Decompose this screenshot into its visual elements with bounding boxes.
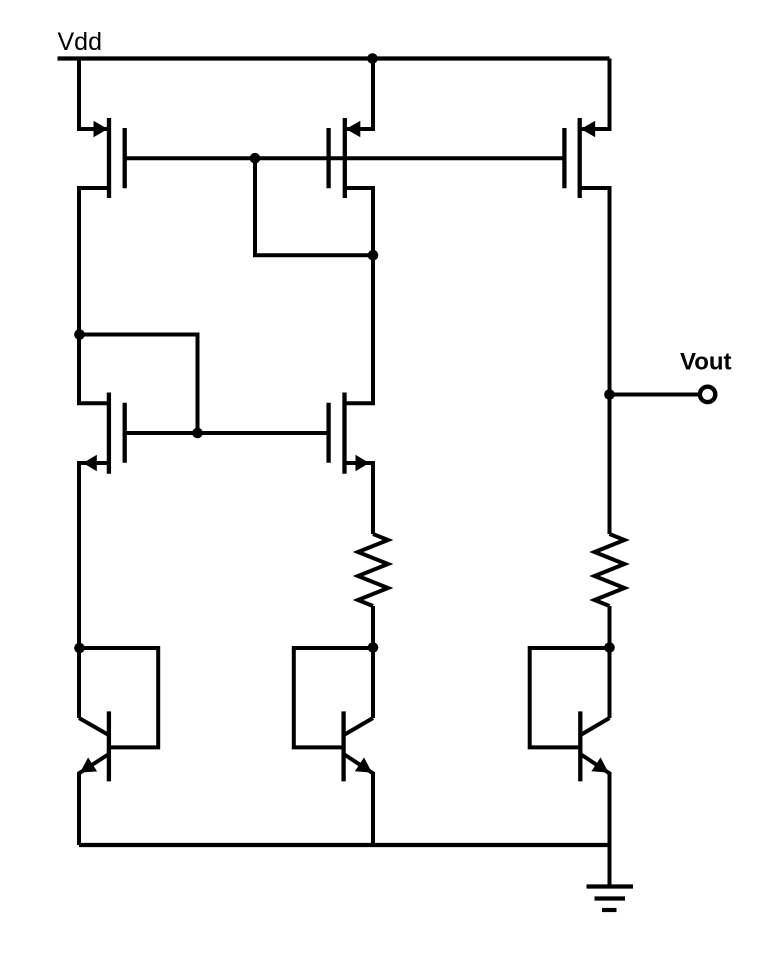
- svg-text:Vdd: Vdd: [58, 28, 102, 56]
- svg-text:Vout: Vout: [680, 349, 732, 376]
